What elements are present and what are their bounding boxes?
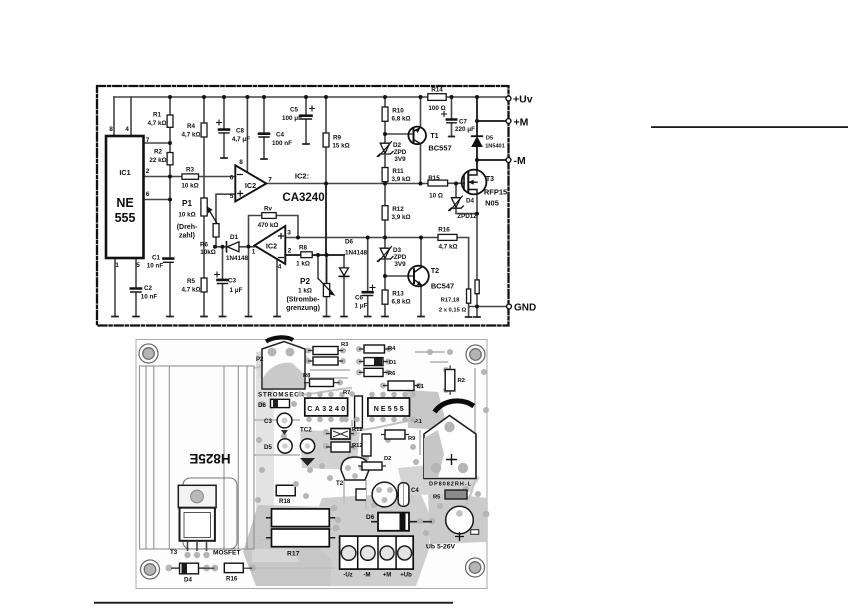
svg-text:C4: C4 <box>411 488 419 494</box>
svg-text:6: 6 <box>230 175 234 182</box>
svg-text:100 nF: 100 nF <box>272 140 292 147</box>
svg-text:-Uz: -Uz <box>343 573 352 579</box>
svg-text:R9: R9 <box>333 135 342 142</box>
svg-text:R5: R5 <box>187 278 196 285</box>
svg-text:4,7 μF: 4,7 μF <box>232 136 250 143</box>
svg-text:1 μF: 1 μF <box>355 303 368 310</box>
svg-text:555: 555 <box>115 211 136 225</box>
svg-text:6,8 kΩ: 6,8 kΩ <box>391 299 410 306</box>
svg-text:100 μF: 100 μF <box>282 115 302 122</box>
svg-text:R8: R8 <box>303 373 311 379</box>
svg-text:IC1: IC1 <box>119 168 130 177</box>
svg-text:D1: D1 <box>389 360 397 366</box>
svg-text:D5: D5 <box>486 136 493 142</box>
svg-text:(Strombe-: (Strombe- <box>286 297 320 304</box>
svg-text:C8: C8 <box>236 128 245 135</box>
svg-text:-M: -M <box>514 155 526 167</box>
svg-text:MOSFET: MOSFET <box>213 550 240 557</box>
svg-text:D4: D4 <box>466 198 475 205</box>
svg-text:RFP15: RFP15 <box>484 188 507 197</box>
svg-text:IC2:: IC2: <box>295 172 309 181</box>
svg-text:6: 6 <box>146 191 150 198</box>
svg-text:1: 1 <box>252 249 256 256</box>
svg-text:R4: R4 <box>388 346 396 352</box>
svg-text:2 x 0,15 Ω: 2 x 0,15 Ω <box>439 308 467 314</box>
svg-text:+M: +M <box>383 573 392 579</box>
svg-text:D5: D5 <box>264 444 272 451</box>
svg-text:T3: T3 <box>170 549 178 556</box>
svg-text:R17: R17 <box>287 551 300 558</box>
svg-text:+M: +M <box>514 117 529 129</box>
svg-text:D4: D4 <box>184 577 192 584</box>
svg-text:ZPD: ZPD <box>394 254 407 261</box>
svg-text:C3: C3 <box>228 278 237 285</box>
svg-text:10 Ω: 10 Ω <box>429 193 443 200</box>
svg-text:6,8 kΩ: 6,8 kΩ <box>391 116 410 123</box>
svg-text:Rv: Rv <box>264 206 273 213</box>
svg-text:2: 2 <box>288 248 292 255</box>
svg-text:R13: R13 <box>392 291 404 298</box>
svg-text:R12: R12 <box>352 443 363 449</box>
svg-text:P2: P2 <box>256 357 264 363</box>
svg-text:D6: D6 <box>366 514 375 521</box>
svg-text:R5: R5 <box>433 495 441 501</box>
svg-text:3V9: 3V9 <box>394 261 406 268</box>
svg-text:TC2: TC2 <box>300 427 312 434</box>
svg-text:R10: R10 <box>392 108 404 115</box>
svg-text:8: 8 <box>109 126 113 133</box>
svg-text:R6: R6 <box>388 371 396 377</box>
svg-text:4,7 kΩ: 4,7 kΩ <box>181 287 200 294</box>
svg-text:R1: R1 <box>153 112 162 119</box>
svg-text:H825E: H825E <box>189 451 230 466</box>
svg-text:1N4148: 1N4148 <box>345 250 368 257</box>
svg-text:IC2: IC2 <box>245 181 256 190</box>
svg-text:R7: R7 <box>343 390 350 396</box>
svg-text:100 Ω: 100 Ω <box>428 105 445 112</box>
svg-text:R2: R2 <box>154 149 163 156</box>
svg-text:R16: R16 <box>226 576 238 583</box>
svg-text:1: 1 <box>115 262 119 269</box>
svg-text:4: 4 <box>125 126 129 133</box>
svg-text:R8: R8 <box>299 245 308 252</box>
svg-text:3,9 kΩ: 3,9 kΩ <box>391 176 410 183</box>
svg-text:+Ub: +Ub <box>400 573 412 579</box>
svg-text:5: 5 <box>230 193 234 200</box>
svg-text:+Uv: +Uv <box>513 94 533 106</box>
svg-text:4,7 kΩ: 4,7 kΩ <box>147 120 166 127</box>
svg-text:1N5401: 1N5401 <box>485 144 505 150</box>
svg-text:5: 5 <box>136 262 140 269</box>
svg-text:10 kΩ: 10 kΩ <box>181 183 198 190</box>
svg-text:Ub 5-26V: Ub 5-26V <box>426 544 456 551</box>
svg-text:R17,18: R17,18 <box>441 298 460 304</box>
svg-text:T2: T2 <box>336 480 344 487</box>
svg-text:N05: N05 <box>485 199 499 208</box>
svg-text:zahl): zahl) <box>179 233 195 240</box>
svg-text:R16: R16 <box>438 227 450 234</box>
svg-text:R11: R11 <box>392 168 404 175</box>
svg-text:R6: R6 <box>200 242 209 249</box>
svg-text:D1: D1 <box>230 234 239 241</box>
svg-text:D6: D6 <box>258 402 266 409</box>
svg-text:NE555: NE555 <box>374 406 404 413</box>
svg-text:D3: D3 <box>393 247 402 254</box>
svg-text:2: 2 <box>146 168 150 175</box>
svg-text:1 kΩ: 1 kΩ <box>296 261 310 268</box>
svg-text:-M: -M <box>364 573 371 579</box>
svg-text:P1: P1 <box>182 199 192 208</box>
svg-text:C5: C5 <box>290 107 299 114</box>
svg-text:10 nF: 10 nF <box>147 263 164 270</box>
svg-text:C3: C3 <box>264 418 272 425</box>
svg-text:T3: T3 <box>486 176 494 183</box>
svg-text:BC557: BC557 <box>428 144 451 153</box>
svg-text:10kΩ: 10kΩ <box>200 249 216 256</box>
svg-text:10 nF: 10 nF <box>141 294 158 301</box>
svg-text:NE: NE <box>116 196 133 210</box>
svg-text:R11: R11 <box>352 427 363 433</box>
svg-text:1 kΩ: 1 kΩ <box>298 288 312 295</box>
svg-text:T2: T2 <box>431 268 439 275</box>
svg-text:R14: R14 <box>431 87 443 94</box>
svg-text:7: 7 <box>268 177 272 184</box>
svg-text:1 μF: 1 μF <box>230 287 243 294</box>
svg-text:D2: D2 <box>393 142 402 149</box>
svg-text:C6: C6 <box>355 295 364 302</box>
svg-text:R12: R12 <box>392 206 404 213</box>
svg-text:P2: P2 <box>300 277 310 286</box>
svg-text:4: 4 <box>278 264 282 271</box>
svg-text:R9: R9 <box>408 436 416 442</box>
svg-text:C7: C7 <box>459 119 468 126</box>
svg-text:8: 8 <box>239 159 243 166</box>
svg-text:BC547: BC547 <box>431 282 454 291</box>
svg-text:C2: C2 <box>144 285 153 292</box>
svg-text:(Dreh-: (Dreh- <box>177 224 198 231</box>
svg-text:3V9: 3V9 <box>394 156 406 163</box>
svg-text:C1: C1 <box>152 255 161 262</box>
svg-text:470 kΩ: 470 kΩ <box>258 222 279 229</box>
svg-text:4,7 kΩ: 4,7 kΩ <box>181 132 200 139</box>
svg-text:DP8082RH-L: DP8082RH-L <box>429 482 472 488</box>
svg-text:220 μF: 220 μF <box>455 126 475 133</box>
svg-text:R2: R2 <box>458 378 465 384</box>
svg-text:ZPD12: ZPD12 <box>457 213 477 220</box>
svg-text:C4: C4 <box>276 132 285 139</box>
svg-text:D2: D2 <box>384 456 391 462</box>
svg-text:22 kΩ: 22 kΩ <box>149 157 166 164</box>
svg-text:T1: T1 <box>430 133 438 140</box>
svg-text:7: 7 <box>146 137 150 144</box>
svg-text:R4: R4 <box>187 123 196 130</box>
svg-text:3: 3 <box>287 230 291 237</box>
svg-text:D6: D6 <box>345 239 354 246</box>
svg-text:IC2: IC2 <box>266 242 277 251</box>
svg-text:15 kΩ: 15 kΩ <box>332 143 349 150</box>
svg-text:CA3240: CA3240 <box>282 192 324 204</box>
svg-text:R3: R3 <box>341 342 349 348</box>
svg-text:3,9 kΩ: 3,9 kΩ <box>391 214 410 221</box>
svg-text:GND: GND <box>514 303 536 314</box>
svg-text:ZPD: ZPD <box>394 149 407 156</box>
svg-text:R18: R18 <box>279 498 291 505</box>
svg-text:4,7 kΩ: 4,7 kΩ <box>438 244 457 251</box>
svg-text:R3: R3 <box>186 167 195 174</box>
svg-text:10 kΩ: 10 kΩ <box>178 212 195 219</box>
svg-text:1N4148: 1N4148 <box>226 255 249 262</box>
svg-text:R15: R15 <box>428 175 440 182</box>
svg-text:grenzung): grenzung) <box>286 305 320 312</box>
